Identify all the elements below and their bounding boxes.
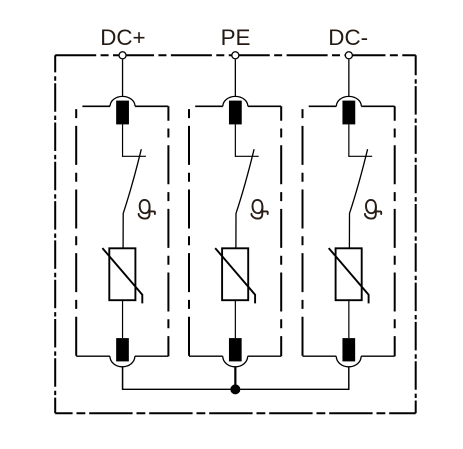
svg-text:DC+: DC+ bbox=[100, 25, 145, 50]
svg-text:DC-: DC- bbox=[328, 25, 368, 50]
svg-text:PE: PE bbox=[221, 25, 251, 50]
